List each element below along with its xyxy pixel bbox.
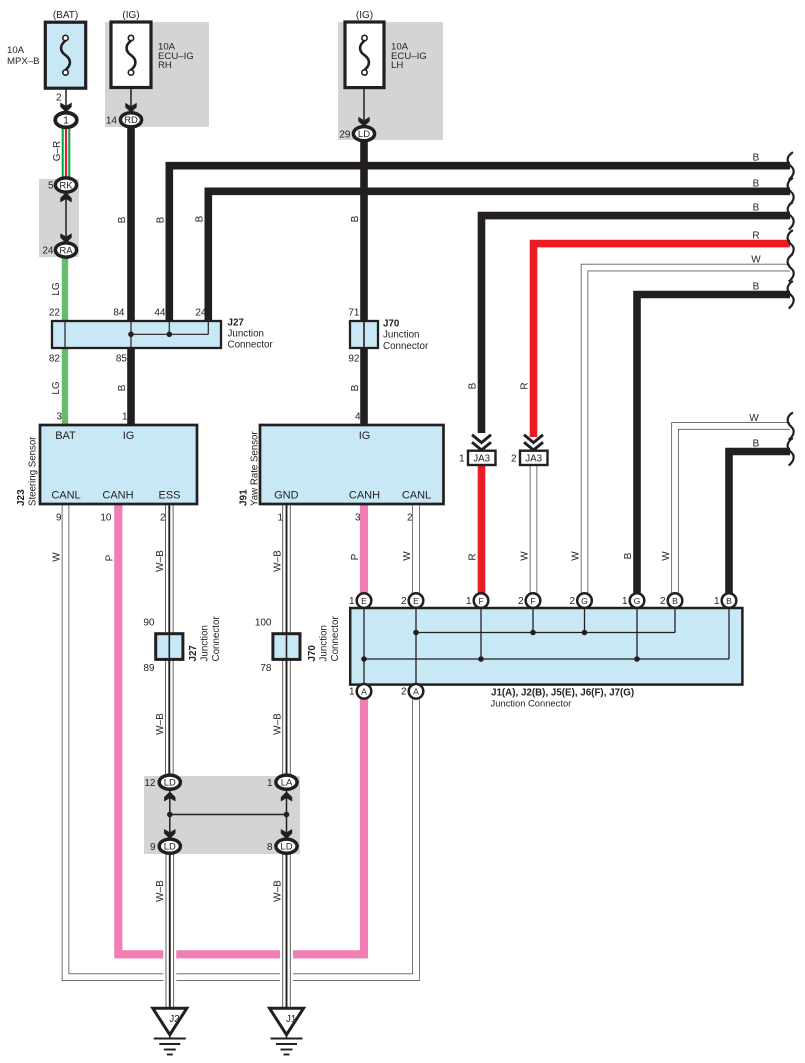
connector 8 LD (ellipse)	[276, 839, 297, 853]
svg-text:W–B: W–B	[272, 713, 283, 735]
junction pin 2E	[409, 593, 424, 608]
svg-text:2: 2	[511, 454, 517, 465]
svg-text:29: 29	[339, 129, 351, 140]
junction pin 1F	[474, 593, 489, 608]
svg-text:1: 1	[267, 778, 273, 789]
junction pin 2F	[526, 593, 541, 608]
wire W horizontal (right edge to junction pin 2B)	[675, 426, 790, 595]
ground J1	[270, 1008, 304, 1054]
svg-text:10: 10	[100, 513, 112, 524]
arrow down toward 8 LD	[281, 829, 292, 839]
svg-text:JA3: JA3	[525, 454, 542, 465]
svg-text:B: B	[753, 153, 760, 164]
svg-text:B: B	[672, 596, 678, 606]
svg-text:2: 2	[401, 687, 407, 698]
arrow up toward 12 LD	[164, 792, 175, 802]
svg-text:B: B	[350, 384, 361, 391]
svg-text:A: A	[413, 687, 419, 697]
break symbol wire B5 right edge	[788, 438, 794, 466]
svg-text:G–R: G–R	[52, 141, 63, 162]
arrow down toward 9 LD	[164, 829, 175, 839]
svg-text:E: E	[413, 596, 419, 606]
svg-text:24: 24	[42, 246, 54, 257]
svg-text:Connector: Connector	[330, 616, 341, 662]
svg-text:R: R	[468, 553, 479, 560]
svg-text:W: W	[751, 255, 761, 266]
svg-text:R: R	[752, 231, 759, 242]
break symbol wire B2 right edge	[788, 178, 794, 206]
wire B horizontal (right edge to junction pin 1B)	[729, 452, 790, 595]
break symbol wire B3 right edge	[788, 202, 794, 230]
svg-text:RD: RD	[124, 115, 138, 126]
svg-text:F: F	[478, 596, 483, 606]
svg-text:CANL: CANL	[402, 490, 431, 502]
svg-text:8: 8	[267, 842, 273, 853]
svg-text:78: 78	[260, 663, 272, 674]
svg-text:B: B	[753, 282, 760, 293]
wire P (yaw CANH to junction pin 1E)	[360, 504, 368, 594]
gray background of fuse ECU-IG RH	[105, 22, 209, 127]
svg-text:LD: LD	[358, 129, 370, 140]
connector 29 LD (ellipse)	[353, 127, 374, 141]
svg-text:1: 1	[122, 412, 128, 423]
arrow up toward RK	[60, 192, 71, 202]
fuse 10A MPX-B (BAT)	[45, 22, 85, 88]
svg-text:J70: J70	[383, 319, 400, 330]
svg-text:J27: J27	[228, 318, 245, 329]
wire W-B (yaw GND to J70 100, 78 to connector 1 LA, 8 LD to ground J1)	[282, 504, 291, 1008]
svg-text:1: 1	[349, 596, 355, 607]
svg-text:2: 2	[56, 93, 62, 104]
svg-text:GND: GND	[274, 490, 299, 502]
svg-text:W–B: W–B	[155, 880, 166, 902]
svg-text:ESS: ESS	[158, 490, 180, 502]
break symbol wire W right edge	[788, 254, 794, 282]
svg-text:24: 24	[195, 308, 207, 319]
svg-text:1: 1	[459, 454, 465, 465]
svg-text:2: 2	[407, 513, 413, 524]
svg-text:1: 1	[63, 116, 69, 127]
svg-text:92: 92	[348, 354, 360, 365]
svg-text:G: G	[634, 596, 641, 606]
break symbol wire W2 right edge	[788, 412, 794, 440]
svg-text:1: 1	[349, 687, 355, 698]
wire B horizontal 1 (right edge to J27 pin 44)	[169, 166, 790, 322]
svg-text:W–B: W–B	[155, 550, 166, 572]
svg-text:71: 71	[348, 308, 360, 319]
svg-text:RH: RH	[158, 60, 172, 71]
wire R horizontal (right edge to JA3 no.2)	[534, 244, 791, 437]
junction pin 2G	[577, 593, 592, 608]
svg-text:3: 3	[355, 513, 361, 524]
svg-text:LG: LG	[51, 381, 62, 395]
svg-text:J91: J91	[239, 489, 250, 506]
junction connector J70 (bar)	[350, 321, 378, 348]
svg-text:3: 3	[56, 412, 62, 423]
gray background of connector pair RK/RA	[39, 179, 79, 257]
svg-text:44: 44	[154, 308, 166, 319]
svg-text:B: B	[753, 178, 760, 189]
svg-text:2: 2	[160, 513, 166, 524]
svg-text:LH: LH	[391, 60, 403, 71]
svg-text:IG: IG	[359, 430, 371, 442]
wire from fuse RH to connector RD	[130, 88, 132, 107]
wire W (JA3 no.2 to junction pin 2F)	[530, 465, 538, 595]
connector 14 RD (ellipse)	[120, 113, 141, 127]
wire B horizontal (right edge to junction pin 1G)	[637, 295, 790, 595]
wire G-R (connector 1 to connector RK)	[62, 126, 71, 180]
junction connector J70 (small box)	[273, 632, 300, 661]
svg-text:4: 4	[355, 412, 361, 423]
connector 24 RA (ellipse)	[55, 243, 76, 257]
yaw rate sensor block J91	[260, 425, 444, 504]
svg-text:W: W	[571, 551, 582, 561]
svg-text:2: 2	[569, 596, 575, 607]
svg-text:RA: RA	[59, 245, 73, 256]
svg-text:J1: J1	[286, 1014, 296, 1025]
junction pin 2A	[409, 684, 424, 699]
svg-text:2: 2	[518, 596, 524, 607]
wire W (yaw CANL to junction pin 2E)	[412, 504, 420, 594]
connector group line 12LD-1LA link	[167, 786, 289, 841]
svg-text:B: B	[117, 216, 128, 223]
wire B vertical from fuse RD to steering sensor IG	[127, 126, 135, 425]
arrow into connector LD	[358, 117, 369, 127]
svg-text:CANL: CANL	[51, 490, 80, 502]
svg-text:82: 82	[49, 354, 61, 365]
break symbol wire B4 right edge	[788, 281, 794, 309]
wire from fuse LH to connector LD	[363, 88, 365, 120]
svg-text:22: 22	[49, 308, 61, 319]
svg-text:B: B	[468, 382, 479, 389]
svg-text:W: W	[520, 551, 531, 561]
wire W horizontal (right edge to junction pin 2G)	[585, 268, 791, 595]
fuse 10A ECU-IG RH	[111, 22, 151, 88]
arrow into connector RD	[125, 103, 136, 113]
svg-text:CANH: CANH	[102, 490, 133, 502]
svg-text:LA: LA	[281, 778, 293, 789]
svg-text:F: F	[530, 596, 535, 606]
svg-text:MPX–B: MPX–B	[7, 56, 40, 67]
svg-text:J23: J23	[16, 489, 27, 506]
svg-text:G: G	[581, 596, 588, 606]
svg-text:B: B	[117, 384, 128, 391]
junction pin 1G	[630, 593, 645, 608]
svg-text:Steering Sensor: Steering Sensor	[28, 436, 39, 506]
svg-text:9: 9	[150, 842, 156, 853]
svg-text:P: P	[105, 554, 116, 561]
svg-text:Yaw Rate Sensor: Yaw Rate Sensor	[250, 431, 261, 506]
svg-text:9: 9	[56, 513, 62, 524]
svg-text:Junction: Junction	[228, 329, 265, 340]
connector 1 (ellipse)	[55, 113, 77, 128]
svg-text:W: W	[749, 413, 759, 424]
arrow down toward RA	[60, 233, 71, 243]
svg-text:W–B: W–B	[272, 880, 283, 902]
svg-text:(BAT): (BAT)	[53, 10, 78, 21]
wire from fuse BAT to connector 1	[65, 88, 67, 106]
svg-text:LD: LD	[280, 842, 292, 853]
junction connector J27 (bar)	[52, 321, 221, 348]
svg-text:Connector: Connector	[383, 341, 429, 352]
svg-text:A: A	[361, 687, 367, 697]
junction pin 1B	[722, 593, 737, 608]
junction pin 1A	[357, 684, 372, 699]
svg-text:(IG): (IG)	[122, 10, 139, 21]
svg-text:RK: RK	[59, 180, 73, 191]
svg-text:89: 89	[143, 663, 155, 674]
junction pin 2B	[668, 593, 683, 608]
svg-text:1: 1	[714, 596, 720, 607]
wire B vertical from fuse LD to yaw rate sensor IG	[360, 140, 368, 425]
svg-text:Connector: Connector	[228, 340, 274, 351]
svg-text:W: W	[661, 551, 672, 561]
svg-text:JA3: JA3	[473, 454, 490, 465]
svg-text:B: B	[753, 439, 760, 450]
junction pin 1E	[357, 593, 372, 608]
arrow into connector 1	[60, 103, 71, 113]
svg-text:LD: LD	[164, 842, 176, 853]
wire B horizontal 3 (right edge to JA3 no.1)	[482, 216, 791, 433]
svg-text:B: B	[195, 215, 206, 222]
wire P (steering CANH to junction pin 1A)	[118, 504, 364, 954]
svg-text:W: W	[52, 552, 63, 562]
connector 5 RK (ellipse)	[55, 178, 76, 192]
wire W-B (steering ESS to J27 90, 89 to connector 12 LD, 9 LD to ground J2)	[165, 504, 174, 1008]
junction connector J1(A),J2(B),J5(E),J6(F),J7(G) box	[350, 608, 742, 685]
svg-text:J2: J2	[169, 1014, 179, 1025]
svg-text:14: 14	[106, 115, 118, 126]
connector 1 LA (ellipse)	[276, 775, 297, 789]
svg-text:Junction: Junction	[319, 625, 330, 662]
svg-text:84: 84	[113, 308, 125, 319]
svg-text:J27: J27	[188, 645, 199, 662]
svg-text:W–B: W–B	[272, 550, 283, 572]
wire R (JA3 no.1 to junction pin 1F)	[478, 465, 486, 595]
connector JA3 no.1	[468, 435, 496, 465]
junction connector J27 (small box)	[156, 632, 183, 661]
svg-text:5: 5	[48, 181, 54, 192]
svg-text:W: W	[402, 551, 413, 561]
svg-text:10A: 10A	[7, 45, 25, 56]
svg-text:Junction Connector: Junction Connector	[491, 697, 572, 708]
svg-text:90: 90	[143, 618, 155, 629]
connector 12 LD (ellipse)	[159, 775, 180, 789]
svg-text:B: B	[156, 216, 167, 223]
break symbol wire B1 right edge	[788, 152, 794, 180]
svg-text:E: E	[361, 596, 367, 606]
svg-text:P: P	[350, 553, 361, 560]
svg-text:1: 1	[466, 596, 472, 607]
svg-text:(IG): (IG)	[356, 10, 373, 21]
svg-text:Connector: Connector	[211, 616, 222, 662]
svg-text:12: 12	[144, 778, 156, 789]
svg-text:R: R	[520, 382, 531, 389]
svg-text:B: B	[753, 203, 760, 214]
arrow up toward 1 LA	[281, 792, 292, 802]
svg-text:Junction: Junction	[200, 625, 211, 662]
svg-text:B: B	[350, 215, 361, 222]
wire between RK and RA	[65, 196, 67, 237]
svg-text:100: 100	[255, 618, 272, 629]
svg-text:CANH: CANH	[349, 490, 380, 502]
gray background of fuse ECU-IG LH	[338, 22, 443, 140]
fuse 10A ECU-IG LH	[345, 22, 384, 88]
gray background of connector group LD/LA	[144, 776, 300, 854]
connector 9 LD (ellipse)	[159, 839, 180, 853]
svg-text:Junction: Junction	[383, 330, 420, 341]
ground J2	[153, 1008, 187, 1054]
svg-text:IG: IG	[123, 430, 135, 442]
svg-text:LD: LD	[164, 778, 176, 789]
svg-text:1: 1	[277, 513, 283, 524]
svg-text:W–B: W–B	[155, 713, 166, 735]
svg-text:B: B	[623, 552, 634, 559]
svg-text:2: 2	[660, 596, 666, 607]
steering sensor block J23	[40, 425, 197, 504]
wire LG (connector RA to J27 pin 22, then J27 pin 82 to steering BAT)	[62, 255, 68, 425]
svg-text:85: 85	[116, 354, 128, 365]
wire W (steering CANL to junction pin 2A)	[66, 504, 417, 977]
wire B horizontal 2 (right edge to J27 pin 24)	[208, 191, 790, 322]
svg-text:J70: J70	[307, 645, 318, 662]
svg-text:B: B	[726, 596, 732, 606]
svg-text:BAT: BAT	[55, 430, 76, 442]
svg-text:2: 2	[401, 596, 407, 607]
svg-text:LG: LG	[51, 282, 62, 296]
connector JA3 no.2	[520, 435, 548, 465]
svg-text:1: 1	[622, 596, 628, 607]
break symbol wire R right edge	[788, 230, 794, 258]
